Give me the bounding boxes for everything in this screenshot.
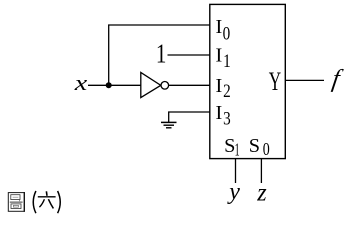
svg-text:1: 1: [223, 51, 231, 72]
svg-text:I: I: [216, 102, 223, 124]
svg-text:I: I: [216, 16, 223, 38]
svg-text:0: 0: [223, 23, 231, 44]
svg-text:x: x: [74, 70, 88, 95]
svg-text:2: 2: [223, 81, 231, 102]
svg-text:I: I: [216, 45, 223, 67]
svg-text:z: z: [256, 180, 267, 207]
svg-text:Y: Y: [269, 67, 282, 96]
svg-text:S: S: [249, 135, 260, 157]
svg-text:1: 1: [235, 140, 240, 160]
svg-text:y: y: [227, 179, 240, 205]
svg-text:1: 1: [156, 38, 167, 69]
svg-text:3: 3: [223, 108, 231, 129]
svg-text:0: 0: [263, 139, 270, 159]
svg-text:I: I: [216, 75, 223, 97]
